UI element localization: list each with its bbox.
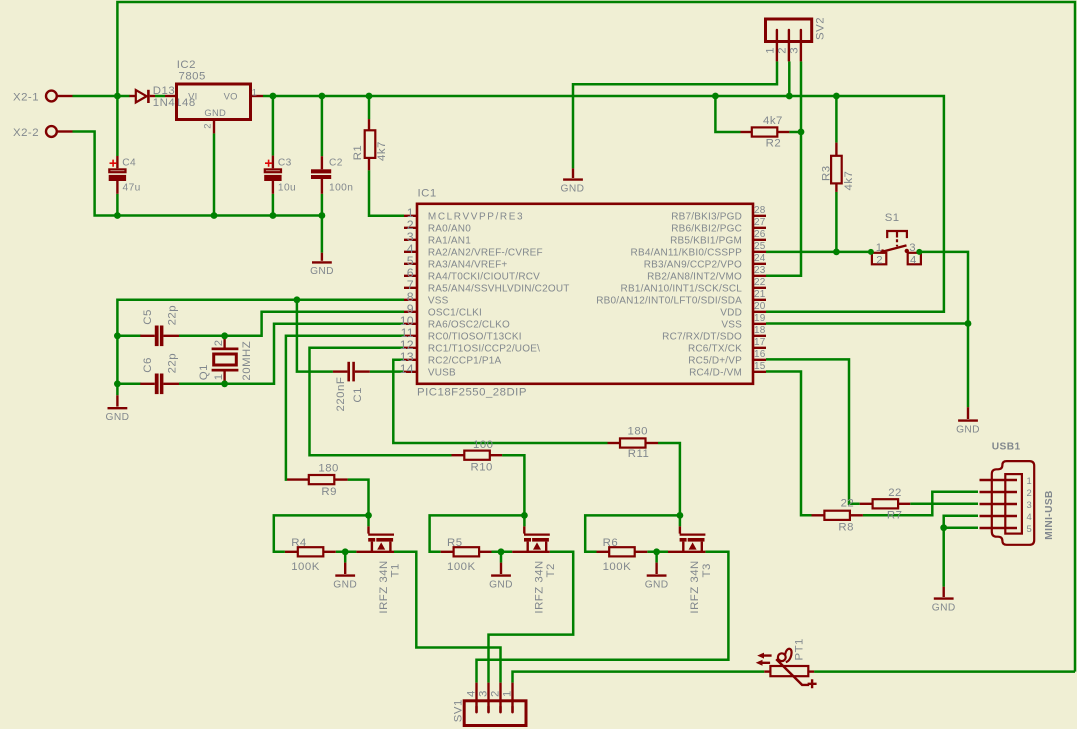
svg-text:VI: VI bbox=[188, 90, 197, 101]
junction node Q1 pin1 bbox=[221, 380, 228, 387]
wire X2-1 to diode bbox=[73, 95, 130, 98]
svg-text:2: 2 bbox=[777, 47, 789, 54]
regulator IC2 7805 bbox=[177, 59, 264, 134]
svg-text:GND: GND bbox=[561, 183, 585, 194]
svg-text:RA3/AN4/VREF+: RA3/AN4/VREF+ bbox=[428, 259, 508, 270]
svg-text:4k7: 4k7 bbox=[376, 141, 388, 161]
wire C6/Q1 to OSC2 pin10 bbox=[179, 324, 404, 384]
capacitor C6 22p bbox=[140, 353, 179, 394]
svg-text:1: 1 bbox=[765, 47, 777, 54]
ground below C6 bbox=[106, 395, 130, 423]
wire PT1 right lead to border bbox=[814, 670, 1075, 673]
junction node S1/VSS bbox=[965, 320, 972, 327]
svg-text:GND: GND bbox=[932, 602, 956, 613]
ground S1/VSS bbox=[956, 407, 980, 435]
svg-text:10u: 10u bbox=[278, 182, 296, 193]
junction node T3 gate bbox=[677, 512, 684, 519]
wire R1 top bbox=[368, 96, 371, 119]
wire R2 right to node bbox=[789, 131, 801, 134]
photoelement PT1 bbox=[756, 638, 817, 688]
crystal Q1 20MHZ bbox=[198, 336, 253, 384]
svg-text:23: 23 bbox=[754, 265, 766, 276]
svg-text:T3: T3 bbox=[701, 563, 713, 577]
svg-text:IRFZ 34N: IRFZ 34N bbox=[378, 560, 390, 613]
svg-text:22p: 22p bbox=[166, 305, 178, 326]
wire R3 bottom to S1 row bbox=[835, 192, 838, 252]
junction node C6 left bbox=[114, 380, 121, 387]
svg-text:RC5/D+/VP: RC5/D+/VP bbox=[688, 355, 742, 366]
wire C3 bottom bbox=[272, 194, 275, 216]
wire USB pin4 to GND column bbox=[944, 516, 978, 587]
wire RC1 pin12 to R10 bbox=[310, 348, 452, 455]
svg-text:GND: GND bbox=[106, 412, 130, 423]
svg-text:VUSB: VUSB bbox=[428, 367, 456, 378]
svg-text:R8: R8 bbox=[838, 521, 854, 533]
svg-text:VDD: VDD bbox=[720, 307, 742, 318]
transistor T2 IRFZ34N bbox=[512, 526, 557, 613]
svg-text:25: 25 bbox=[754, 241, 766, 252]
wire T2 GND stub bbox=[500, 552, 503, 563]
svg-text:R11: R11 bbox=[628, 448, 650, 460]
capacitor C4 47u bbox=[109, 156, 141, 194]
svg-text:28: 28 bbox=[754, 205, 766, 216]
svg-text:USB1: USB1 bbox=[992, 442, 1021, 453]
wire RB4 pin25 to S1 bbox=[766, 251, 872, 254]
svg-text:PT1: PT1 bbox=[793, 638, 805, 660]
ground T1 bbox=[333, 563, 357, 591]
transistor T3 IRFZ34N bbox=[668, 526, 713, 613]
svg-text:RB3/AN9/CCP2/VPO: RB3/AN9/CCP2/VPO bbox=[644, 259, 742, 270]
svg-text:20MHZ: 20MHZ bbox=[241, 341, 253, 381]
svg-text:RC7/RX/DT/SDO: RC7/RX/DT/SDO bbox=[662, 331, 742, 342]
svg-text:19: 19 bbox=[754, 313, 766, 324]
svg-text:C4: C4 bbox=[122, 158, 136, 169]
wire C4 bottom to bus bbox=[116, 194, 119, 216]
svg-text:3: 3 bbox=[1027, 499, 1033, 510]
junction node T2 gate bbox=[521, 512, 528, 519]
IC U1 PIC18F2550 box bbox=[417, 188, 753, 399]
wire VSS pin19 row bbox=[766, 322, 968, 325]
svg-text:4: 4 bbox=[466, 690, 478, 697]
svg-text:20: 20 bbox=[754, 301, 766, 312]
svg-text:26: 26 bbox=[754, 229, 766, 240]
svg-text:1: 1 bbox=[502, 690, 514, 697]
wire GND stub below C6 bbox=[116, 384, 119, 396]
wire +5V branch to R2 left bbox=[715, 96, 740, 132]
wire T3 gate loop to R6 bbox=[585, 515, 680, 551]
svg-text:RA1/AN1: RA1/AN1 bbox=[428, 235, 471, 246]
svg-text:C3: C3 bbox=[278, 158, 292, 169]
wire SV2 pin2 to +5V bbox=[788, 61, 791, 96]
svg-text:5: 5 bbox=[1027, 523, 1033, 534]
svg-text:VSS: VSS bbox=[428, 295, 449, 306]
svg-text:T1: T1 bbox=[389, 563, 401, 577]
resistor R9 180 bbox=[287, 463, 348, 498]
svg-text:C2: C2 bbox=[329, 158, 343, 169]
svg-text:GND: GND bbox=[310, 266, 334, 277]
svg-text:OSC1/CLKI: OSC1/CLKI bbox=[428, 307, 482, 318]
svg-text:2: 2 bbox=[876, 254, 883, 266]
junction node R3/S1/RB4 bbox=[833, 249, 840, 256]
junction node T1 source GND bbox=[342, 548, 349, 555]
wire T1 gate loop to R4 bbox=[274, 515, 369, 551]
resistor R1 4k7 bbox=[352, 119, 388, 170]
svg-text:C5: C5 bbox=[142, 309, 154, 325]
svg-text:100K: 100K bbox=[603, 561, 632, 573]
svg-text:R1: R1 bbox=[352, 145, 364, 161]
svg-text:16: 16 bbox=[754, 349, 766, 360]
wire R1 bottom to MCLR pin1 bbox=[369, 170, 404, 216]
ground T3 bbox=[645, 563, 669, 591]
svg-text:SV1: SV1 bbox=[452, 699, 464, 722]
svg-text:2: 2 bbox=[202, 123, 213, 129]
resistor R3 4k7 bbox=[821, 143, 856, 192]
svg-text:1: 1 bbox=[1027, 475, 1033, 486]
svg-text:IRFZ 34N: IRFZ 34N bbox=[534, 560, 546, 613]
junction node C2 top bbox=[319, 93, 326, 100]
resistor R10 100 bbox=[452, 439, 503, 474]
resistor R8 22 bbox=[812, 498, 863, 534]
wire R9 to T1 gate bbox=[348, 480, 369, 527]
svg-text:GND: GND bbox=[204, 107, 226, 118]
svg-text:2: 2 bbox=[490, 690, 502, 697]
svg-text:24: 24 bbox=[754, 253, 766, 264]
connector X2-1 bbox=[13, 91, 73, 104]
svg-text:RA2/AN2/VREF-/CVREF: RA2/AN2/VREF-/CVREF bbox=[428, 247, 543, 258]
IC1 left pin names bbox=[428, 211, 570, 378]
wire T3 GND stub bbox=[655, 552, 658, 563]
wire R11 to T3 gate bbox=[658, 443, 680, 526]
svg-text:S1: S1 bbox=[885, 212, 900, 224]
wire RC2 pin13 to R11 bbox=[393, 360, 607, 443]
svg-text:R4: R4 bbox=[291, 537, 307, 549]
svg-text:GND: GND bbox=[333, 579, 357, 590]
wire R10 to T2 gate bbox=[502, 455, 524, 526]
ground USB bbox=[932, 587, 956, 614]
svg-text:22: 22 bbox=[888, 487, 902, 499]
svg-text:GND: GND bbox=[956, 424, 980, 435]
svg-text:18: 18 bbox=[754, 325, 766, 336]
svg-text:C6: C6 bbox=[142, 357, 154, 373]
wire X2-2 to GND bus bbox=[73, 132, 322, 216]
wire SV1 pin1 to PT1 bbox=[513, 672, 765, 683]
wire T2 drain to SV1 pin3 bbox=[489, 552, 574, 683]
junction node USB GND bbox=[940, 524, 947, 531]
svg-text:VSS: VSS bbox=[721, 319, 742, 330]
svg-text:RA6/OSC2/CLKO: RA6/OSC2/CLKO bbox=[428, 319, 510, 330]
svg-text:RC4/D-/VM: RC4/D-/VM bbox=[689, 367, 742, 378]
resistor R2 4k7 bbox=[741, 115, 790, 150]
connector SV2 bbox=[765, 17, 827, 61]
wire R6 to T3 source row bbox=[647, 551, 668, 554]
ground below C2 bbox=[310, 253, 334, 278]
svg-text:4: 4 bbox=[910, 254, 917, 266]
svg-text:1: 1 bbox=[252, 86, 258, 97]
wire C5 left lead bbox=[117, 335, 141, 338]
wire C2 bottom to GND bbox=[321, 194, 324, 253]
connector USB1 MINI-USB bbox=[980, 442, 1056, 545]
svg-text:R6: R6 bbox=[603, 537, 619, 549]
wire RC4 pin15 to R8 bbox=[766, 372, 812, 516]
junction node C2 bus bbox=[319, 212, 326, 219]
svg-text:GND: GND bbox=[645, 579, 669, 590]
svg-text:3: 3 bbox=[909, 242, 916, 254]
svg-text:R3: R3 bbox=[821, 165, 833, 181]
svg-text:4k7: 4k7 bbox=[843, 171, 855, 191]
svg-text:7805: 7805 bbox=[179, 71, 206, 83]
svg-text:RB1/AN10/INT1/SCK/SCL: RB1/AN10/INT1/SCK/SCL bbox=[621, 283, 743, 294]
svg-text:17: 17 bbox=[754, 337, 766, 348]
IC1 right pin stubs 28-15 bbox=[753, 216, 766, 372]
svg-text:R9: R9 bbox=[321, 486, 337, 498]
svg-text:GND: GND bbox=[489, 579, 513, 590]
junction node SV2 pin2 bbox=[786, 93, 793, 100]
svg-text:R7: R7 bbox=[887, 510, 903, 522]
svg-text:IC2: IC2 bbox=[177, 59, 196, 71]
svg-text:47u: 47u bbox=[123, 182, 141, 193]
svg-text:100: 100 bbox=[473, 439, 494, 451]
svg-text:RB6/KBI2/PGC: RB6/KBI2/PGC bbox=[671, 223, 742, 234]
svg-text:VO: VO bbox=[224, 90, 238, 101]
svg-text:1: 1 bbox=[213, 373, 225, 380]
svg-text:D13: D13 bbox=[153, 85, 175, 97]
svg-text:220nF: 220nF bbox=[335, 377, 347, 412]
svg-text:100n: 100n bbox=[329, 182, 353, 193]
svg-text:27: 27 bbox=[754, 217, 766, 228]
svg-text:RA4/T0CKI/CIOUT/RCV: RA4/T0CKI/CIOUT/RCV bbox=[428, 271, 540, 282]
svg-text:RA5/AN4/SSVHLVDIN/C2OUT: RA5/AN4/SSVHLVDIN/C2OUT bbox=[428, 283, 570, 294]
svg-text:RB0/AN12/INT0/LFT0/SDI/SDA: RB0/AN12/INT0/LFT0/SDI/SDA bbox=[596, 295, 742, 306]
svg-text:C1: C1 bbox=[352, 387, 364, 403]
wire C2 top bbox=[321, 96, 324, 156]
resistor R11 180 bbox=[608, 425, 659, 460]
junction node R3 top bbox=[833, 93, 840, 100]
resistor R6 100K bbox=[597, 537, 648, 573]
wire 7805 GND pin to bus bbox=[213, 133, 216, 215]
svg-text:15: 15 bbox=[754, 361, 766, 372]
svg-text:3: 3 bbox=[478, 690, 490, 697]
wire VSS pin8 to C5/C6 column bbox=[117, 300, 404, 384]
wire USB pin5 to GND node bbox=[944, 526, 978, 529]
wire R5 to T2 source row bbox=[492, 551, 513, 554]
wire +5V rail to VDD pin20 bbox=[263, 96, 944, 312]
svg-text:RC6/TX/CK: RC6/TX/CK bbox=[688, 343, 742, 354]
wire T1 GND stub bbox=[344, 552, 347, 563]
junction node C3 bus bbox=[270, 212, 277, 219]
svg-text:22: 22 bbox=[841, 498, 855, 510]
wire T2 gate loop to R5 bbox=[430, 515, 525, 551]
junction node C3 top bbox=[270, 93, 277, 100]
resistor R5 100K bbox=[441, 537, 492, 573]
svg-text:IRFZ 34N: IRFZ 34N bbox=[689, 560, 701, 613]
wire R4 to T1 source row bbox=[336, 551, 357, 554]
svg-text:RC2/CCP1/P1A: RC2/CCP1/P1A bbox=[428, 355, 502, 366]
wire R7 to USB pin3 bbox=[910, 503, 978, 506]
wire R8 to USB pin2 bbox=[863, 492, 978, 516]
svg-text:X2-1: X2-1 bbox=[13, 92, 39, 104]
svg-text:4k7: 4k7 bbox=[763, 115, 783, 127]
transistor T1 IRFZ34N bbox=[356, 526, 401, 613]
resistor R7 22 bbox=[860, 487, 911, 522]
junction node C5 left bbox=[114, 332, 121, 339]
svg-text:RB4/AN11/KBI0/CSSPP: RB4/AN11/KBI0/CSSPP bbox=[631, 247, 743, 258]
svg-text:RA0/AN0: RA0/AN0 bbox=[428, 223, 471, 234]
junction node C4 bus bbox=[114, 212, 121, 219]
wire RC5 pin16 to R7 bbox=[766, 359, 860, 503]
ground SV2 pin1 bbox=[561, 168, 585, 194]
svg-text:180: 180 bbox=[318, 463, 339, 475]
svg-text:180: 180 bbox=[628, 425, 649, 437]
junction node T1 gate bbox=[365, 512, 372, 519]
junction node VSS/C1 bbox=[294, 296, 301, 303]
svg-text:RB2/AN8/INT2/VMO: RB2/AN8/INT2/VMO bbox=[647, 271, 742, 282]
wire T1 drain to SV1 pin2 bbox=[394, 552, 501, 683]
junction node T2 source GND bbox=[498, 548, 505, 555]
capacitor C1 220nF bbox=[333, 362, 370, 412]
svg-text:100K: 100K bbox=[291, 561, 320, 573]
junction node R2/SV2-3 bbox=[798, 129, 805, 136]
svg-text:R10: R10 bbox=[471, 461, 493, 473]
connector X2-2 bbox=[13, 126, 73, 139]
svg-text:2: 2 bbox=[213, 339, 225, 346]
switch S1 bbox=[868, 212, 922, 266]
capacitor C2 100n bbox=[311, 156, 353, 194]
svg-text:SV2: SV2 bbox=[814, 17, 826, 40]
IC1 left pin numbers bbox=[400, 206, 414, 376]
svg-text:4: 4 bbox=[1027, 511, 1033, 522]
junction node 7805 bus bbox=[211, 212, 218, 219]
wire C3 top bbox=[272, 96, 275, 156]
svg-text:MINI-USB: MINI-USB bbox=[1044, 490, 1055, 540]
wire C6 left lead bbox=[117, 383, 141, 386]
wire SV2 pin3 to R2 and RB2 pin23 bbox=[766, 61, 801, 275]
junction node R2 branch bbox=[712, 93, 719, 100]
wire VSS node to C1 bbox=[297, 300, 333, 372]
svg-text:22p: 22p bbox=[166, 353, 178, 374]
svg-text:X2-2: X2-2 bbox=[13, 127, 39, 139]
svg-text:IC1: IC1 bbox=[418, 188, 437, 200]
IC1 left pin stubs 1-14 bbox=[404, 216, 417, 372]
connector SV1 bbox=[452, 683, 526, 726]
svg-text:RC0/TIOSO/T13CKI: RC0/TIOSO/T13CKI bbox=[428, 331, 522, 342]
resistor R4 100K bbox=[285, 537, 336, 573]
svg-text:R2: R2 bbox=[766, 138, 782, 150]
svg-text:R5: R5 bbox=[447, 537, 463, 549]
svg-text:21: 21 bbox=[754, 289, 766, 300]
wire C1 to VUSB pin14 bbox=[370, 370, 404, 373]
wire RC0 pin11 to R9 bbox=[286, 336, 404, 480]
wire T3 drain to SV1 pin4 bbox=[477, 552, 729, 683]
svg-text:22: 22 bbox=[754, 277, 766, 288]
svg-text:PIC18F2550_28DIP: PIC18F2550_28DIP bbox=[417, 387, 527, 399]
wire C5/Q1 to OSC1 pin9 bbox=[179, 312, 404, 336]
svg-text:3: 3 bbox=[789, 47, 801, 54]
svg-text:2: 2 bbox=[1027, 487, 1033, 498]
junction node Q1 pin2 bbox=[221, 332, 228, 339]
IC1 right pin numbers bbox=[754, 205, 766, 372]
svg-text:RC1/T1OSI/CCP2/UOE\: RC1/T1OSI/CCP2/UOE\ bbox=[428, 343, 540, 354]
wire R3 top bbox=[835, 96, 838, 143]
wire S1 to VSS node and GND bbox=[921, 252, 968, 407]
svg-text:T2: T2 bbox=[545, 563, 557, 577]
svg-text:RB5/KBI1/PGM: RB5/KBI1/PGM bbox=[670, 235, 742, 246]
capacitor C5 22p bbox=[140, 305, 179, 346]
diode D13 1N4148 bbox=[129, 85, 195, 109]
junction node +12V/X2-1 bbox=[114, 93, 121, 100]
wire SV2 pin1 to GND bbox=[573, 61, 777, 168]
svg-text:1: 1 bbox=[876, 242, 883, 254]
svg-text:Q1: Q1 bbox=[198, 364, 210, 380]
junction node R1 top bbox=[366, 93, 373, 100]
svg-text:14: 14 bbox=[400, 362, 414, 376]
svg-text:100K: 100K bbox=[447, 561, 476, 573]
svg-text:MCLRVVPP/RE3: MCLRVVPP/RE3 bbox=[428, 211, 524, 222]
junction node T3 source GND bbox=[653, 548, 660, 555]
IC1 right pin names bbox=[596, 211, 742, 378]
svg-text:RB7/BKI3/PGD: RB7/BKI3/PGD bbox=[671, 211, 742, 222]
ground T2 bbox=[489, 563, 513, 591]
capacitor C3 10u bbox=[264, 156, 296, 194]
